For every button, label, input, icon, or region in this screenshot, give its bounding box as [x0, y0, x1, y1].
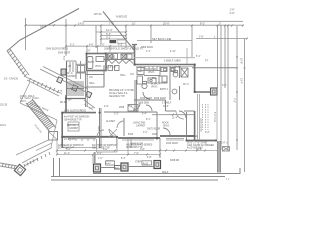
svg-text:ON ALL WALLS &: ON ALL WALLS &	[109, 92, 128, 95]
svg-text:N 88'51'E: N 88'51'E	[116, 15, 127, 19]
svg-text:2'-8": 2'-8"	[147, 157, 152, 159]
svg-text:LIN: LIN	[130, 74, 134, 76]
svg-text:9'-1": 9'-1"	[146, 119, 151, 121]
svg-text:LIVING RM.: LIVING RM.	[133, 123, 146, 125]
svg-text:9'-2": 9'-2"	[118, 44, 123, 46]
svg-text:VINYL: VINYL	[151, 87, 158, 89]
svg-text:SET BACK LINE: SET BACK LINE	[152, 37, 172, 41]
svg-text:5 SHELF: 5 SHELF	[162, 103, 172, 105]
svg-text:VINYL: VINYL	[148, 72, 155, 74]
svg-text:UP: UP	[68, 66, 72, 68]
svg-text:16070 OVHD: 16070 OVHD	[199, 118, 201, 132]
svg-text:2668: 2668	[119, 107, 125, 109]
svg-text:6'-2": 6'-2"	[106, 32, 111, 36]
svg-text:P.T.: P.T.	[205, 60, 209, 62]
svg-text:16'-8": 16'-8"	[196, 148, 202, 151]
svg-text:3040: 3040	[152, 134, 158, 136]
svg-text:197.30: 197.30	[94, 12, 102, 16]
svg-text:5 SHELF LINEN: 5 SHELF LINEN	[164, 60, 181, 62]
svg-text:16070 SLDR: 16070 SLDR	[147, 129, 160, 131]
svg-text:6'-1": 6'-1"	[128, 106, 133, 108]
svg-text:6'-1": 6'-1"	[196, 56, 201, 58]
svg-text:10': 10'	[132, 22, 136, 26]
svg-text:3'-0": 3'-0"	[103, 148, 108, 151]
svg-text:HALL: HALL	[120, 74, 126, 77]
svg-text:HALL: HALL	[89, 82, 95, 85]
svg-text:CARPET: CARPET	[136, 125, 146, 128]
svg-text:W.I.C.: W.I.C.	[183, 84, 190, 86]
svg-text:7'-0": 7'-0"	[233, 98, 236, 103]
svg-text:7'-0": 7'-0"	[134, 152, 139, 155]
svg-text:1'-0": 1'-0"	[98, 158, 103, 160]
svg-text:W.I.C.: W.I.C.	[67, 73, 74, 75]
svg-text:101.9: 101.9	[0, 125, 6, 127]
svg-text:BED RM. 2: BED RM. 2	[67, 125, 79, 127]
svg-text:5'-0": 5'-0"	[100, 44, 105, 46]
svg-text:VINYL: VINYL	[163, 126, 170, 128]
svg-text:M. BATH: M. BATH	[151, 83, 160, 86]
svg-text:11'-2": 11'-2"	[64, 152, 70, 155]
svg-text:2668: 2668	[97, 126, 99, 132]
svg-text:21'-4": 21'-4"	[172, 117, 178, 119]
svg-text:10'-6": 10'-6"	[240, 58, 243, 64]
svg-text:BATH: BATH	[88, 61, 94, 64]
svg-text:3'-1": 3'-1"	[114, 114, 119, 116]
svg-text:CONC. WALK: CONC. WALK	[20, 95, 35, 98]
svg-text:CEILINGS TYP.: CEILINGS TYP.	[109, 96, 125, 98]
svg-text:2'-1": 2'-1"	[146, 51, 151, 53]
svg-text:13'-2" x 11': 13'-2" x 11'	[64, 139, 76, 141]
svg-text:1'-6": 1'-6"	[86, 51, 91, 53]
svg-text:5'-1": 5'-1"	[70, 44, 75, 46]
svg-text:4x4 POST W/ SIMPSON: 4x4 POST W/ SIMPSON	[64, 117, 90, 119]
svg-text:5'-4": 5'-4"	[121, 158, 126, 160]
svg-text:REF: REF	[138, 71, 143, 73]
svg-text:SHWR: SHWR	[174, 67, 181, 69]
svg-text:4'-6": 4'-6"	[89, 44, 94, 46]
svg-text:2668 2668: 2668 2668	[138, 103, 150, 105]
svg-text:3040 SLDR EGRESS: 3040 SLDR EGRESS	[64, 111, 87, 113]
svg-text:VINYL: VINYL	[95, 66, 102, 68]
svg-text:WINDOWS TYP.: WINDOWS TYP.	[126, 147, 143, 149]
svg-text:ANDERSEN 400 SERIES: ANDERSEN 400 SERIES	[126, 144, 153, 147]
svg-text:PROVIDE 1/2" GYP. BD.: PROVIDE 1/2" GYP. BD.	[109, 90, 135, 92]
svg-text:EX. GRADE: EX. GRADE	[4, 77, 18, 81]
svg-text:21'-4": 21'-4"	[240, 78, 243, 84]
svg-text:4x10: 4x10	[106, 163, 112, 165]
svg-text:CLOSET: CLOSET	[106, 121, 116, 123]
svg-text:8'-0" CLG: 8'-0" CLG	[213, 112, 215, 122]
svg-text:CARPET: CARPET	[67, 75, 77, 78]
svg-text:6'-4": 6'-4"	[142, 114, 147, 116]
svg-text:BATH 2: BATH 2	[160, 88, 169, 91]
svg-text:12'-4": 12'-4"	[106, 28, 113, 32]
svg-text:5'-6": 5'-6"	[66, 148, 71, 151]
svg-text:NOOK: NOOK	[162, 123, 169, 125]
svg-text:2'-8": 2'-8"	[104, 106, 109, 108]
svg-text:6030 SLDR: 6030 SLDR	[154, 98, 166, 100]
svg-text:9'-2": 9'-2"	[205, 132, 210, 134]
svg-text:5040: 5040	[128, 134, 134, 136]
svg-text:CARPET: CARPET	[69, 127, 79, 130]
svg-text:14'-0": 14'-0"	[78, 22, 85, 26]
svg-text:3040 SLDR EGRESS: 3040 SLDR EGRESS	[46, 49, 69, 51]
svg-text:102.5: 102.5	[20, 101, 26, 103]
svg-text:8'-2": 8'-2"	[200, 22, 205, 26]
svg-text:5'-6": 5'-6"	[62, 56, 64, 61]
svg-text:2'-0": 2'-0"	[230, 11, 235, 15]
svg-text:3068 DR: 3068 DR	[170, 160, 179, 162]
svg-text:4x8 BEAM W/ SIMPSON: 4x8 BEAM W/ SIMPSON	[58, 144, 84, 147]
svg-text:4030 SLDR: 4030 SLDR	[140, 98, 152, 100]
svg-text:GARAGE: GARAGE	[188, 135, 198, 138]
svg-text:3'-0": 3'-0"	[222, 85, 227, 87]
svg-text:2'-2": 2'-2"	[143, 132, 148, 134]
svg-text:12'-4" x 5': 12'-4" x 5'	[106, 67, 117, 69]
svg-text:DN: DN	[68, 100, 72, 102]
svg-text:3050 SLDR: 3050 SLDR	[141, 47, 153, 49]
svg-text:6'-4": 6'-4"	[97, 152, 102, 155]
svg-text:CB44 BASE TYP.: CB44 BASE TYP.	[64, 118, 82, 121]
svg-text:LIN: LIN	[89, 77, 93, 79]
svg-text:2'-6": 2'-6"	[199, 37, 204, 39]
svg-text:WALK: WALK	[162, 171, 169, 174]
svg-text:GAR. DOOR W/ OPENER: GAR. DOOR W/ OPENER	[187, 144, 214, 147]
svg-text:3'-1": 3'-1"	[106, 35, 111, 39]
svg-text:DN 8R: DN 8R	[60, 102, 67, 104]
svg-text:4'-11": 4'-11"	[170, 51, 176, 53]
svg-text:16'-3": 16'-3"	[163, 106, 169, 108]
svg-text:5040 SLDR: 5040 SLDR	[58, 53, 70, 55]
svg-text:102.35: 102.35	[0, 105, 8, 107]
svg-text:4030 SLDR: 4030 SLDR	[166, 143, 178, 145]
svg-text:20'-6": 20'-6"	[163, 22, 170, 26]
svg-text:2'-0" x: 2'-0" x	[221, 143, 228, 145]
svg-text:3'-0": 3'-0"	[89, 108, 94, 110]
svg-text:16'-0" x 7'-0" OVHD: 16'-0" x 7'-0" OVHD	[187, 142, 207, 144]
svg-text:4x10: 4x10	[143, 164, 149, 166]
svg-text:8'-0": 8'-0"	[59, 90, 61, 95]
